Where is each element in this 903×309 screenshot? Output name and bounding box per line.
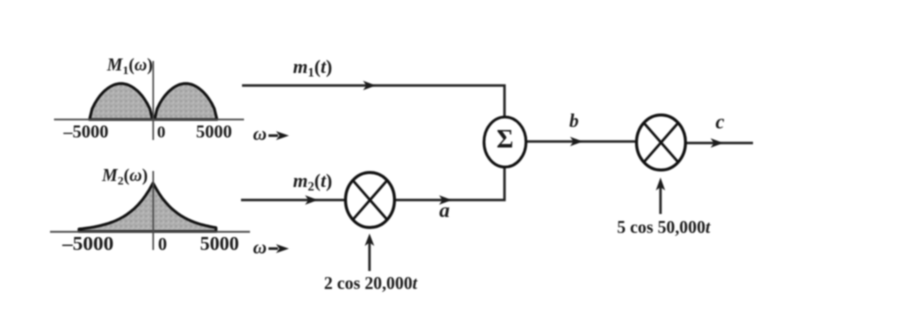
svg-text:2 cos 20,000t: 2 cos 20,000t bbox=[324, 273, 418, 293]
svg-text:M1(ω): M1(ω) bbox=[106, 55, 153, 78]
svg-text:0: 0 bbox=[158, 234, 167, 254]
svg-text:c: c bbox=[716, 112, 725, 134]
svg-text:ω: ω bbox=[253, 124, 267, 145]
svg-text:Σ: Σ bbox=[497, 125, 514, 154]
svg-text:M2(ω): M2(ω) bbox=[101, 165, 148, 188]
svg-text:a: a bbox=[439, 198, 450, 222]
svg-text:b: b bbox=[569, 111, 579, 132]
svg-text:0: 0 bbox=[157, 123, 166, 142]
svg-text:–5000: –5000 bbox=[61, 233, 113, 255]
svg-text:5 cos 50,000t: 5 cos 50,000t bbox=[617, 217, 711, 237]
svg-text:5000: 5000 bbox=[200, 234, 239, 255]
svg-text:ω: ω bbox=[253, 238, 267, 259]
svg-text:5000: 5000 bbox=[196, 122, 232, 142]
svg-text:–5000: –5000 bbox=[63, 122, 109, 142]
